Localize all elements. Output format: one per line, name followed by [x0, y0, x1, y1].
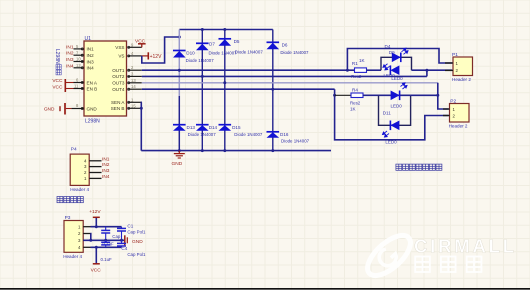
diode D13 — [173, 124, 186, 126]
node SENB joins SENA wire — [140, 107, 143, 110]
node rail-D7 — [201, 28, 204, 31]
wire OUT2 riser to P1 pin2 — [426, 70, 428, 76]
power port VCC at VSS pin 9 — [141, 44, 143, 48]
svg-text:SEN B: SEN B — [111, 106, 125, 111]
svg-text:IN2: IN2 — [66, 51, 74, 57]
U1 enable pin stubs pins 6,11 — [66, 82, 74, 84]
LED pair A loop — [381, 57, 412, 70]
svg-text:GND: GND — [172, 161, 183, 167]
wire +12V top rail — [179, 29, 272, 31]
node C1-GND — [120, 239, 123, 242]
wire to R4 — [335, 94, 351, 96]
wire LED B row — [379, 94, 411, 96]
svg-text:2: 2 — [131, 65, 134, 70]
node +12V rail joins column D10 — [178, 36, 181, 39]
sheet bottom border — [0, 288, 530, 290]
svg-text:11: 11 — [74, 84, 79, 89]
svg-text:D14: D14 — [209, 125, 218, 130]
LED D4 on OUT1 row — [390, 65, 399, 75]
U1 ground pin stub pin 8 — [71, 108, 83, 110]
resistor R4 — [351, 93, 363, 98]
svg-text:VCC: VCC — [135, 39, 146, 45]
node rail-col4 — [271, 149, 274, 152]
wire VS to diode rail — [142, 37, 180, 63]
svg-text:P2: P2 — [450, 98, 456, 104]
svg-text:OUT4: OUT4 — [112, 87, 125, 92]
svg-text:1K: 1K — [350, 107, 357, 112]
svg-text:Cap Pol1: Cap Pol1 — [127, 230, 146, 235]
svg-text:VCC: VCC — [52, 78, 63, 84]
svg-text:GND: GND — [44, 107, 55, 113]
svg-text:IN3: IN3 — [66, 57, 74, 63]
svg-text:+12V: +12V — [89, 209, 101, 215]
svg-text:Header 4: Header 4 — [70, 187, 89, 192]
wire VCC riser down — [95, 247, 97, 263]
node OUT2-col2 — [201, 75, 204, 78]
svg-text:Diode 1N4007: Diode 1N4007 — [280, 50, 309, 55]
svg-text:OUT2: OUT2 — [112, 74, 125, 79]
text motor control caption — [57, 197, 63, 203]
connector P3 — [64, 221, 83, 253]
node C2-GND — [104, 239, 107, 242]
svg-text:EN B: EN B — [87, 86, 98, 91]
LED D9 — [392, 53, 401, 63]
svg-text:13: 13 — [131, 78, 136, 83]
node rail-col3 — [223, 149, 226, 152]
svg-text:L298N: L298N — [54, 49, 60, 64]
wire R1 to LED pair A — [367, 69, 382, 71]
svg-text:9: 9 — [131, 42, 134, 47]
svg-text:Diode 1N4007: Diode 1N4007 — [235, 50, 264, 55]
svg-text:D6: D6 — [282, 42, 288, 47]
wire LED A return — [412, 69, 453, 71]
svg-text:Diode 1N4007: Diode 1N4007 — [188, 132, 217, 137]
svg-text:IN2: IN2 — [102, 162, 110, 168]
LED D9 arrows — [401, 47, 409, 55]
svg-text:LED0: LED0 — [391, 76, 403, 81]
node OUT4-col4 — [271, 88, 274, 91]
svg-text:Header 2: Header 2 — [449, 123, 468, 128]
diode D6 — [267, 41, 280, 43]
svg-text:Cap Pol1: Cap Pol1 — [127, 252, 146, 257]
wire P3 pin1 +12V rail — [91, 226, 122, 228]
power port +12V at P3 — [93, 216, 100, 218]
wire OUT3 — [142, 82, 438, 84]
svg-text:U1: U1 — [85, 36, 92, 42]
node pin2-GND row — [89, 239, 92, 242]
wire P3 pin4 VCC row — [91, 246, 122, 248]
node pin4 riser — [95, 246, 98, 249]
LED B arrows — [400, 82, 408, 90]
power port VCC at P3 — [93, 263, 100, 265]
svg-text:Diode 1N4007: Diode 1N4007 — [186, 58, 215, 63]
P2 pin stubs — [443, 108, 450, 110]
svg-text:IN3: IN3 — [87, 59, 95, 64]
svg-text:D4: D4 — [385, 44, 391, 49]
P3 pin stubs and numbers — [83, 226, 90, 228]
node rail-col1 — [178, 149, 181, 152]
svg-text:VS: VS — [118, 54, 124, 59]
svg-text:OUT3: OUT3 — [112, 81, 125, 86]
wire SEN A — [140, 102, 143, 150]
svg-text:D9: D9 — [389, 50, 395, 55]
svg-text:P4: P4 — [71, 147, 77, 153]
capacitor C4 — [121, 240, 123, 243]
wire OUT4 — [142, 88, 335, 90]
wire GND bottom rail — [141, 150, 331, 152]
P4 pin stubs and numbers — [89, 160, 101, 162]
svg-text:IN3: IN3 — [102, 168, 110, 174]
wire column D7/D14 — [201, 30, 203, 151]
D11 arrows — [382, 130, 390, 138]
svg-text:IN1: IN1 — [102, 156, 110, 162]
wire LED B return to OUT3 — [411, 94, 438, 96]
svg-text:VCC: VCC — [52, 85, 63, 91]
svg-text:GND: GND — [87, 106, 98, 111]
wire column D10/D13 — [178, 30, 180, 97]
resistor R1 — [355, 68, 367, 73]
svg-text:4: 4 — [131, 51, 134, 56]
wire OUT3 to P2 pin1 — [438, 83, 449, 109]
svg-text:P3: P3 — [65, 215, 71, 221]
node rail-D5 — [223, 28, 226, 31]
node LED A return-OUT2 — [425, 69, 428, 72]
text motor indicator caption — [396, 164, 402, 170]
diode D15 — [219, 124, 232, 126]
capacitor C3 — [105, 240, 107, 242]
svg-text:D7: D7 — [209, 41, 215, 46]
svg-text:L298N: L298N — [85, 119, 100, 125]
svg-text:P1: P1 — [452, 52, 458, 58]
node LED B return-OUT3 — [436, 94, 439, 97]
svg-text:8: 8 — [76, 103, 79, 108]
svg-text:C1: C1 — [127, 223, 133, 228]
node rail-col2 — [201, 149, 204, 152]
op-amp U1 body (L298N driver IC) — [84, 41, 127, 116]
power port +12V at VS pin 4 — [142, 55, 149, 57]
wire R4 to LED pair B — [363, 94, 379, 96]
diode D7 — [196, 42, 209, 44]
svg-text:R4: R4 — [352, 88, 358, 93]
ground symbol at P3 — [124, 235, 126, 245]
node OUT1-loop — [346, 69, 349, 72]
svg-text:GND: GND — [132, 239, 143, 245]
U1 input pin stubs pins 5,7,10,12 — [74, 48, 84, 50]
svg-text:IN2: IN2 — [87, 53, 95, 58]
svg-text:D10: D10 — [186, 51, 195, 56]
svg-text:SEN A: SEN A — [111, 100, 125, 105]
wire P3 pin2 to GND row — [90, 234, 92, 241]
svg-text:EN A: EN A — [87, 80, 98, 85]
svg-text:LED0: LED0 — [385, 140, 397, 145]
svg-text:10: 10 — [76, 57, 81, 62]
svg-text:IN4: IN4 — [66, 63, 74, 69]
svg-text:1K: 1K — [359, 58, 366, 63]
wire column D6/D16 — [272, 30, 274, 151]
wire GND row — [83, 239, 124, 241]
LED D4 arrows — [382, 63, 390, 71]
node OUT1-col1 — [178, 69, 181, 72]
svg-text:Diode 1N4007: Diode 1N4007 — [281, 139, 310, 144]
LED pair B loop — [379, 95, 411, 125]
wire SEN B — [140, 107, 143, 109]
wire column D5/D15 — [224, 30, 226, 151]
svg-text:VCC: VCC — [91, 268, 102, 274]
diode D5 — [219, 38, 232, 40]
ground symbol at U1 pin 8 — [64, 103, 66, 115]
svg-text:D13: D13 — [187, 125, 196, 130]
wire OUT1 to P1 pin1 loop — [347, 49, 452, 71]
LED LED0 on R4 row — [391, 91, 400, 101]
connector P2 — [450, 104, 470, 123]
node pin1 riser — [95, 225, 98, 228]
svg-text:C4: C4 — [121, 246, 127, 251]
wire +12V riser — [95, 218, 97, 227]
ground symbol below diode bridge — [178, 151, 180, 154]
svg-text:0.1uF: 0.1uF — [101, 257, 113, 262]
node OUT4-R4 row — [333, 94, 336, 97]
P1 pin stubs — [445, 62, 453, 64]
svg-text:IN1: IN1 — [87, 47, 95, 52]
power port VCC at EN A — [64, 79, 66, 92]
svg-text:3: 3 — [131, 71, 134, 76]
watermark logo ellipse — [361, 228, 417, 282]
svg-text:CIRMALL: CIRMALL — [414, 236, 517, 257]
capacitor C1 — [121, 227, 123, 229]
wire OUT4 down to R4 row and P2 pin2 return — [335, 89, 449, 140]
svg-text:Diode 1N4007: Diode 1N4007 — [234, 132, 263, 137]
svg-text:IN4: IN4 — [102, 174, 110, 180]
diode D16 — [267, 131, 280, 133]
diode D14 — [196, 124, 209, 126]
svg-text:+12V: +12V — [150, 54, 162, 60]
svg-text:Diode 1N4007: Diode 1N4007 — [209, 51, 238, 56]
svg-text:Res2: Res2 — [350, 101, 361, 106]
svg-text:D5: D5 — [234, 39, 240, 44]
svg-text:Header 4: Header 4 — [63, 254, 82, 259]
node OUT3-col3 — [223, 81, 226, 84]
svg-text:IN1: IN1 — [66, 44, 74, 50]
svg-text:Res2: Res2 — [351, 74, 362, 79]
svg-text:D16: D16 — [280, 132, 289, 137]
svg-text:15: 15 — [131, 103, 136, 108]
svg-text:R1: R1 — [352, 61, 358, 66]
U1 right pin stubs — [128, 46, 142, 48]
svg-text:LED0: LED0 — [391, 104, 403, 109]
svg-text:14: 14 — [131, 84, 136, 89]
diode D10 — [173, 50, 186, 52]
svg-text:OUT1: OUT1 — [112, 68, 125, 73]
wire OUT1 — [142, 69, 355, 71]
svg-text:1: 1 — [131, 97, 134, 102]
svg-text:VSS: VSS — [115, 45, 124, 50]
svg-text:D11: D11 — [383, 111, 391, 116]
connector P4 — [70, 154, 89, 185]
capacitor C2 — [105, 227, 107, 231]
LED D11 — [390, 121, 399, 131]
svg-text:Header 2: Header 2 — [452, 77, 471, 82]
svg-text:Cap: Cap — [112, 234, 121, 239]
connector P1 — [453, 57, 473, 76]
svg-text:D15: D15 — [232, 125, 241, 130]
wire OUT2 — [142, 75, 427, 77]
svg-text:IN4: IN4 — [87, 66, 95, 71]
svg-text:12: 12 — [76, 63, 81, 68]
